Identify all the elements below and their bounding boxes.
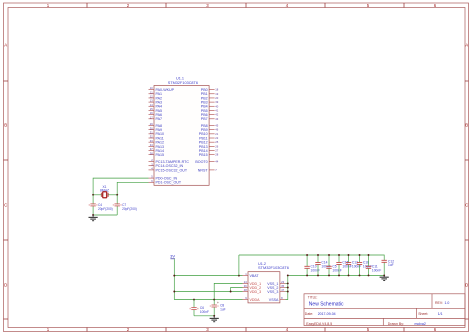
svg-text:26: 26 [215, 144, 218, 148]
wire VDD_3 run [174, 291, 242, 293]
node VSS_2 junction [287, 287, 289, 289]
svg-text:STM32F103C8T6: STM32F103C8T6 [258, 265, 289, 270]
svg-text:35: 35 [281, 284, 284, 288]
node C8/VDD_1 junction [213, 299, 215, 301]
svg-text:2017-09-04: 2017-09-04 [318, 312, 336, 316]
svg-text:VDDA: VDDA [250, 298, 261, 302]
svg-text:PA7: PA7 [156, 117, 163, 121]
svg-text:43: 43 [215, 117, 218, 121]
svg-text:REV:: REV: [435, 301, 443, 305]
svg-text:PC15-OSC32_OUT: PC15-OSC32_OUT [156, 168, 188, 172]
svg-text:1uF: 1uF [220, 307, 226, 311]
svg-text:1uF: 1uF [388, 263, 394, 267]
wire bottom connecting caps [93, 214, 117, 216]
svg-text:46: 46 [215, 128, 218, 132]
wire bottom rail to VDDA [174, 299, 242, 301]
svg-text:20pF(200): 20pF(200) [98, 207, 113, 211]
capacitor C16 100nF [357, 254, 372, 276]
node VDD_3 left junction [173, 291, 175, 293]
svg-text:39: 39 [215, 100, 218, 104]
svg-text:3V: 3V [170, 254, 175, 259]
svg-text:28: 28 [215, 153, 218, 157]
svg-text:42: 42 [215, 113, 218, 117]
svg-text:100nF: 100nF [311, 268, 320, 272]
svg-text:VBAT: VBAT [250, 274, 260, 278]
IC U1.1 STM32F103C8T6 (port pins) [149, 77, 219, 186]
capacitor C7 20pF(200) [113, 203, 137, 211]
svg-text:16: 16 [150, 111, 153, 115]
svg-text:100nF: 100nF [352, 265, 361, 269]
svg-text:17: 17 [150, 115, 153, 119]
crystal X1 8MHZ [100, 185, 109, 198]
svg-text:1.0: 1.0 [445, 301, 450, 305]
svg-text:23: 23 [281, 280, 284, 284]
wire right node down [116, 195, 118, 215]
svg-text:+: + [217, 301, 219, 305]
svg-text:12: 12 [150, 95, 153, 99]
svg-text:BOOT0: BOOT0 [195, 160, 207, 164]
svg-text:PD1-OSC_OUT: PD1-OSC_OUT [156, 181, 182, 185]
svg-text:20: 20 [215, 96, 218, 100]
capacitor C5 100nF [326, 254, 341, 276]
node crystal right junction [116, 194, 118, 196]
node crystal ground junction [92, 214, 94, 216]
svg-text:Date:: Date: [305, 312, 313, 316]
svg-text:7: 7 [215, 168, 217, 172]
svg-text:22: 22 [215, 136, 218, 140]
svg-text:A: A [4, 43, 7, 48]
svg-text:100nF: 100nF [332, 268, 341, 272]
ground (C6/C8) [210, 316, 219, 322]
svg-text:29: 29 [150, 122, 153, 126]
svg-text:B: B [465, 123, 468, 128]
svg-text:14: 14 [150, 103, 153, 107]
svg-text:20pF(200): 20pF(200) [122, 207, 137, 211]
svg-text:15: 15 [150, 107, 153, 111]
svg-text:36: 36 [244, 284, 247, 288]
node C8 ground junction [213, 315, 215, 317]
node cap-bank feed junction [238, 275, 240, 277]
svg-text:molva2: molva2 [415, 322, 426, 326]
svg-text:PB15: PB15 [199, 153, 208, 157]
wire PD0-OSC_IN to crystal left node [93, 178, 148, 195]
wire C12 lower lead [383, 263, 385, 276]
wire 3V to VBAT [174, 275, 242, 277]
svg-text:41: 41 [215, 108, 218, 112]
capacitor C13 100nF [346, 254, 361, 276]
svg-text:EasyEDA V4.8.5: EasyEDA V4.8.5 [306, 322, 332, 326]
svg-text:A: A [465, 43, 468, 48]
capacitor C10 100nF [304, 254, 319, 276]
svg-text:B: B [4, 123, 7, 128]
node cap bank ground junction [383, 274, 385, 276]
svg-text:1/1: 1/1 [438, 312, 443, 316]
svg-text:38: 38 [150, 151, 153, 155]
svg-text:TITLE:: TITLE: [308, 295, 318, 299]
svg-text:30: 30 [150, 126, 153, 130]
capacitor C6 100nF [189, 300, 209, 316]
svg-text:31: 31 [150, 130, 153, 134]
svg-text:24: 24 [244, 280, 247, 284]
capacitor C4 20pF(200) [89, 203, 113, 211]
wire VSS_3 tie [285, 291, 287, 293]
node VSS bottom rail junction [287, 274, 289, 276]
svg-text:C: C [4, 203, 7, 208]
ground (cap bank) [380, 275, 389, 280]
svg-text:10: 10 [150, 86, 153, 90]
svg-text:VSSA: VSSA [269, 298, 279, 302]
svg-text:40: 40 [215, 104, 218, 108]
svg-text:32: 32 [150, 135, 153, 139]
svg-text:34: 34 [150, 143, 153, 147]
svg-text:D: D [4, 283, 7, 288]
svg-text:33: 33 [150, 139, 153, 143]
wire VDD_1 drop [214, 283, 242, 299]
node VDD_2/VDD_3 junction [230, 291, 232, 293]
svg-text:U1.1: U1.1 [176, 77, 184, 81]
capacitor C15 100nF [336, 254, 351, 276]
wire PD1-OSC_OUT to crystal right node [117, 182, 148, 195]
net flag 3V [170, 254, 175, 259]
wire crystal row left [93, 194, 102, 196]
svg-text:Drawn By:: Drawn By: [388, 322, 404, 326]
svg-text:VDD_3: VDD_3 [250, 290, 262, 294]
wire left node down to ground rail [92, 195, 94, 215]
wire 3V main vertical [173, 259, 175, 299]
svg-text:21: 21 [215, 132, 218, 136]
ground (crystal) [89, 215, 98, 221]
wire VSS_2 tie [285, 287, 287, 289]
svg-text:C: C [465, 203, 468, 208]
svg-text:37: 37 [150, 147, 153, 151]
capacitor C14 100nF [315, 254, 330, 276]
capacitor C12 1uF [382, 259, 395, 267]
IC U1.2 STM32F103C8T6 (power pins) [243, 262, 289, 303]
wire cap bank bottom rail [288, 274, 384, 276]
svg-text:25: 25 [215, 140, 218, 144]
svg-text:27: 27 [215, 149, 218, 153]
capacitor C11 100nF [366, 254, 381, 276]
svg-text:D: D [465, 283, 468, 288]
svg-text:100nF: 100nF [372, 268, 381, 272]
svg-text:45: 45 [215, 124, 218, 128]
node 3V/VBAT junction [173, 275, 175, 277]
svg-text:100nF: 100nF [200, 310, 209, 314]
svg-text:44: 44 [215, 160, 218, 164]
svg-text:100nF: 100nF [342, 265, 351, 269]
svg-text:NRST: NRST [198, 168, 209, 172]
wire VSS_1 tie [285, 282, 287, 284]
title block [304, 294, 465, 326]
node crystal left junction [92, 194, 94, 196]
wire cap bank top rail [239, 255, 384, 260]
wire up to cap bank top rail [238, 255, 240, 276]
svg-text:18: 18 [215, 88, 218, 92]
svg-text:PA15: PA15 [156, 153, 165, 157]
svg-text:47: 47 [281, 288, 284, 292]
svg-text:11: 11 [150, 90, 153, 94]
svg-text:13: 13 [150, 99, 153, 103]
svg-text:New Schematic: New Schematic [309, 302, 344, 308]
svg-text:19: 19 [215, 92, 218, 96]
node C6 junction [193, 299, 195, 301]
svg-text:PB7: PB7 [201, 117, 208, 121]
wire VSS vertical [285, 275, 287, 299]
wire crystal row right [109, 194, 118, 196]
capacitor C8 1uF (polarized) [210, 300, 226, 316]
svg-text:48: 48 [244, 288, 247, 292]
wire C6/C8 ground link [194, 315, 214, 317]
svg-text:STM32F103C8T6: STM32F103C8T6 [168, 81, 198, 85]
svg-text:VSS_3: VSS_3 [267, 290, 278, 294]
svg-text:Sheet:: Sheet: [418, 312, 428, 316]
node VSS_1 junction [287, 282, 289, 284]
node VSS_3 junction [287, 291, 289, 293]
wire VDD_2 jog [231, 288, 243, 292]
